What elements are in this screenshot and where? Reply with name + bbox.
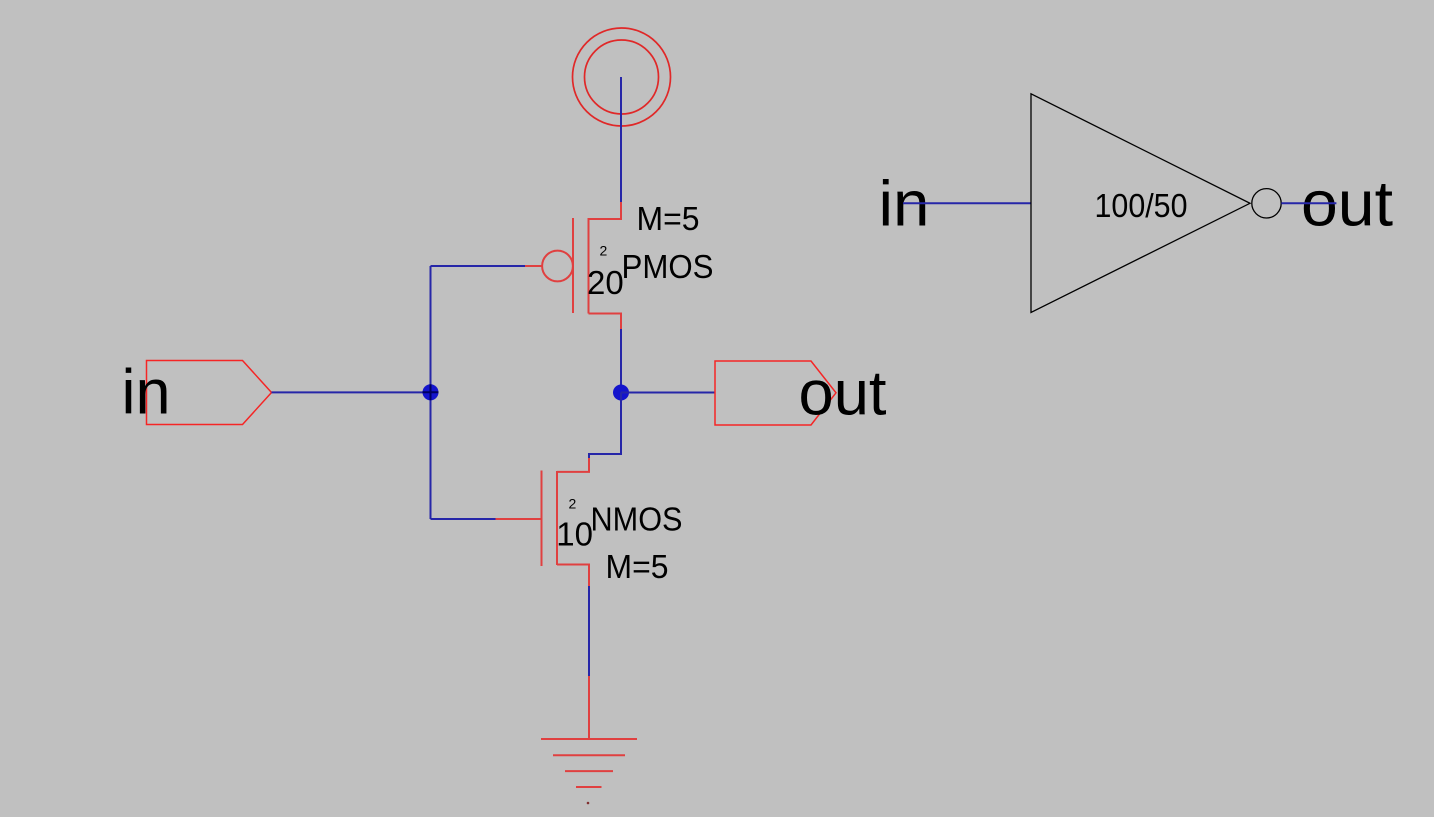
ground origin dot [587, 802, 590, 805]
wire bus to NMOS gate [431, 518, 496, 520]
svg-text:out: out [799, 359, 887, 429]
wire inverter to out (right) [1281, 202, 1336, 204]
port out (left schematic) [715, 361, 836, 425]
ground symbol GND [541, 676, 637, 787]
svg-text:2: 2 [600, 243, 608, 259]
svg-text:M=5: M=5 [606, 548, 669, 585]
port in (left) [147, 361, 272, 425]
junction node in [423, 384, 439, 400]
transistor M1 PMOS [525, 202, 621, 329]
svg-text:M=5: M=5 [637, 200, 700, 237]
wire VDD to PMOS drain [620, 77, 622, 202]
inverter U1 triangle [1031, 94, 1250, 313]
wire PMOS source to output node [620, 329, 622, 393]
transistor M2 NMOS [496, 455, 590, 586]
svg-text:20: 20 [587, 264, 624, 301]
svg-text:in: in [122, 358, 171, 428]
svg-text:PMOS: PMOS [622, 248, 714, 285]
power symbol VDD [573, 28, 671, 126]
wire in port to gate bus [272, 391, 431, 393]
svg-text:100/50: 100/50 [1095, 187, 1188, 224]
wire output node to out port [621, 392, 715, 394]
wire NMOS source to ground [588, 586, 590, 676]
inverter U1 bubble [1252, 189, 1281, 218]
svg-text:NMOS: NMOS [591, 501, 683, 538]
wire bus to PMOS gate [431, 265, 526, 267]
svg-text:2: 2 [569, 496, 577, 512]
wire gate bus vertical [430, 266, 432, 519]
svg-text:10: 10 [556, 516, 593, 553]
wire in to inverter (right) [903, 202, 1031, 204]
junction node out [613, 385, 629, 401]
wire output node down [589, 393, 621, 459]
